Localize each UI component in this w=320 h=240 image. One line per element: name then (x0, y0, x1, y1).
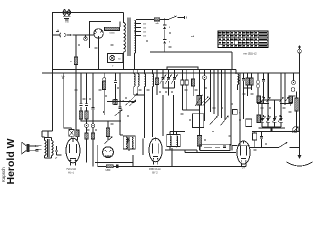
potentiometer P2 (210, 116, 218, 125)
variable capacitor CV1 (160, 70, 166, 89)
meter M1 (108, 54, 124, 63)
wire right cluster (244, 88, 252, 96)
diode D2 (267, 96, 271, 102)
transformer T1 secondary (135, 21, 136, 70)
antenna fuse F1 (63, 10, 72, 21)
trimmer arrow 5 (202, 97, 209, 104)
filter box (200, 144, 230, 150)
wire drop x120 (119, 73, 121, 135)
capacitor C1 electrolytic (163, 25, 171, 29)
resistor R16 box (253, 132, 257, 148)
value labels scatter (56, 31, 296, 151)
ballast box (69, 130, 75, 137)
wire drop x152 (152, 99, 154, 137)
tube V1 (94, 29, 104, 39)
node band dots (107, 101, 109, 103)
resistor R22 (257, 115, 261, 123)
node n121 (80, 120, 82, 122)
wire mid links (105, 121, 129, 151)
resistor R7 (114, 100, 117, 105)
wire drop x199 low (199, 146, 201, 150)
speaker terminals (36, 145, 39, 151)
tap 110 (135, 36, 147, 38)
capacitor C7 (118, 107, 121, 109)
trimmer arrow 1 (115, 110, 123, 117)
svg-text:5··: 5·· (112, 65, 115, 67)
wire heater loop left (95, 145, 133, 167)
resistor R6 anode (103, 73, 106, 115)
transformer IF2 (167, 135, 180, 147)
wire T2 bottom (45, 156, 52, 159)
coil L4 (153, 70, 154, 96)
svg-text:YV0 2·k0: YV0 2·k0 (66, 168, 77, 171)
resistor R8 (155, 78, 158, 85)
wire drop x157 (156, 70, 158, 96)
wire h127 (262, 127, 281, 132)
resistor R10 box (185, 70, 188, 111)
coil L3 (145, 70, 146, 96)
variable capacitor CV3 (171, 70, 177, 89)
resistor R17 (76, 130, 79, 137)
potentiometer P1 (203, 98, 211, 107)
wire mains feed (136, 18, 154, 20)
socket J3 (256, 73, 260, 100)
node det dots (199, 120, 201, 122)
trimmer arrow 4 (131, 94, 138, 100)
capacitor C2 electrolytic (163, 39, 171, 43)
resistor R19 (113, 100, 116, 105)
wire drop x76 (75, 35, 77, 57)
wire anode drop (98, 38, 100, 69)
wire drop x63 (63, 73, 65, 128)
resistor R3 (74, 57, 78, 65)
wire diode feeds (262, 73, 281, 100)
svg-text:mA: mA (191, 35, 195, 38)
tap 125 (135, 32, 148, 34)
socket J5 (85, 121, 89, 133)
wire right rail (299, 53, 301, 155)
wire T2 top links (42, 131, 53, 138)
socket J2 (203, 70, 207, 122)
resistor R23 box (246, 119, 252, 127)
wire drop x76b (75, 73, 77, 131)
diode D5 (126, 137, 129, 143)
switch S2 power (278, 142, 291, 148)
wire h131 right (252, 131, 300, 133)
wire IF2 links (165, 132, 197, 153)
tube V4 oval (149, 138, 162, 165)
resistor R14 (246, 73, 249, 90)
transformer T2 output (38, 138, 53, 158)
wire osc bottoms (163, 88, 175, 95)
resistor R11 (192, 70, 195, 97)
wire drop x243b (243, 88, 245, 119)
resistor R12 (197, 136, 202, 147)
wire drop x76 lower (75, 65, 77, 74)
wire box det (193, 114, 204, 128)
capacitor C8 (242, 73, 245, 88)
capacitor C5 (92, 108, 95, 109)
tap 220 (135, 24, 148, 26)
tube V2 rectifier (66, 138, 80, 165)
coil L6 (238, 74, 239, 90)
wire drop x236 (235, 70, 237, 75)
wire v5 links (232, 146, 250, 151)
resistor R2 mains (154, 18, 159, 21)
capacitor C6 (114, 81, 117, 83)
connector antenna plug (60, 33, 72, 38)
socket J1 (84, 35, 87, 40)
socket J6 (91, 121, 95, 133)
diode D3 (280, 97, 284, 102)
transformer IF1 (123, 136, 135, 149)
socket J4 (291, 73, 295, 91)
trimmer arrow 2 (125, 101, 131, 106)
node rail dots (52, 34, 54, 36)
wire heater main (98, 166, 246, 168)
diode row (260, 100, 264, 127)
wire h101 (107, 101, 136, 103)
coil L5 iron core (195, 95, 203, 107)
diode D9 (273, 115, 277, 122)
resistor R21 (289, 96, 293, 103)
wire drop x240b (239, 73, 241, 146)
diode D4 (285, 97, 289, 102)
wire grid box (90, 22, 121, 49)
svg-text:H(↑↑): H(↑↑) (68, 171, 74, 174)
potentiometer P3 (221, 116, 229, 126)
wire drop x144 (144, 95, 146, 138)
wire coil bottoms (134, 95, 153, 99)
wire drop x285 (284, 73, 286, 105)
svg-text:UY: UY (242, 167, 246, 170)
wire heater risers (143, 139, 246, 167)
diode D6 arrow (127, 140, 130, 143)
trimmer cap 3 (130, 100, 137, 106)
wire ballast links (64, 128, 78, 140)
diode D7 (262, 115, 266, 122)
capacitor C4 (85, 104, 88, 106)
capacitor C3 (79, 104, 82, 106)
wire h147 switch line (250, 147, 300, 149)
capacitor C9 (262, 73, 265, 100)
wire drop x225 (224, 70, 226, 121)
voltage table (218, 31, 268, 48)
coil L7 choke (295, 92, 298, 132)
wire drop x214 (213, 70, 215, 115)
wire bus B (42, 72, 300, 74)
resistor R4 (79, 111, 82, 119)
wire drop x93 (92, 73, 94, 121)
wire drop x199 (199, 70, 201, 136)
potentiometer P4 volume (104, 121, 113, 144)
wire mains cord (178, 16, 187, 19)
wire left main rail (53, 13, 124, 132)
wire HT node (150, 19, 232, 69)
wire drop x86 (86, 73, 88, 121)
wire h110 mid (182, 109, 199, 111)
capacitor C12 block (116, 165, 119, 168)
wire drop x115 (115, 73, 117, 100)
svg-text:50000: 50000 (109, 32, 115, 34)
svg-text:BY 2: BY 2 (152, 171, 158, 174)
wire bus jumper (167, 67, 198, 70)
switch S1 mains (168, 16, 177, 20)
svg-text:Herold W: Herold W (5, 138, 17, 184)
resistor R20 (257, 90, 261, 103)
lamp dial (293, 126, 299, 132)
diode D10 (278, 115, 282, 122)
diode D1 (261, 96, 265, 102)
node pair dots (119, 100, 121, 102)
tube V3 output (103, 147, 114, 158)
lamp pilot (298, 45, 302, 53)
variable capacitor CV2 (165, 70, 171, 89)
capacitor C11 (55, 146, 62, 160)
wire drop x218 (217, 70, 219, 117)
wire drop x221 (221, 70, 223, 119)
coil L2 (138, 70, 139, 96)
wire bus A (53, 69, 237, 71)
tap 150 (135, 28, 148, 30)
wire diode row2 bottom (259, 128, 286, 132)
resistor R1 (105, 27, 120, 30)
wire antenna input (53, 34, 95, 36)
wire drop x173c (173, 95, 175, 135)
resistor R13 box (233, 110, 241, 115)
resistor R15 (250, 73, 253, 90)
resistor R24 (85, 133, 88, 163)
wire speaker leads (30, 146, 36, 150)
wire h121 (81, 120, 121, 122)
coil L1 (134, 70, 135, 96)
wire drop x210 (210, 70, 212, 113)
resistor R18 heater (106, 165, 113, 168)
resistor R9 box (181, 70, 184, 111)
tube V5 oval (237, 141, 250, 167)
wire drop x231 (230, 70, 232, 146)
wire h145 ext (236, 145, 250, 147)
wire diode row1 links (257, 73, 293, 115)
transformer T1 primary (124, 13, 126, 70)
svg-text:PAB Cb·kn: PAB Cb·kn (149, 168, 161, 171)
speaker LS (22, 142, 30, 154)
svg-text:UBF: UBF (106, 169, 111, 172)
node bus junction (62, 72, 64, 74)
wire drop x81 (80, 73, 82, 121)
svg-text:em (3Ω)–(2: em (3Ω)–(2 (243, 51, 257, 55)
wire to switch (160, 18, 169, 20)
ground (287, 155, 313, 166)
capacitor C10 (260, 132, 263, 148)
resistor R25 (91, 133, 94, 167)
wire bottom mid line (185, 151, 236, 153)
resistor R5 (85, 111, 88, 119)
diode D8 (267, 115, 271, 122)
transformer T1 core (128, 18, 130, 57)
wire drop x163c (162, 95, 164, 136)
